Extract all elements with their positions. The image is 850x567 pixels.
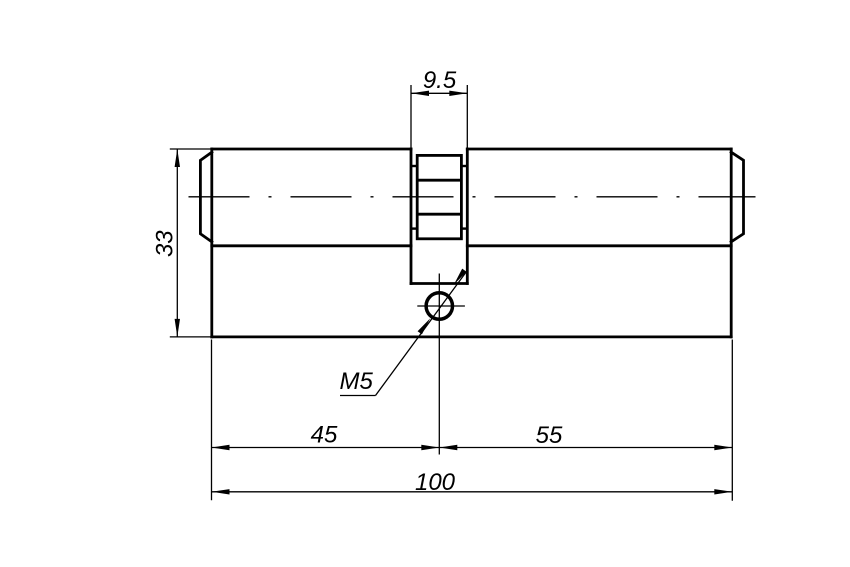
cylinder body outline bbox=[212, 149, 731, 337]
cam slot right wall bbox=[466, 149, 469, 284]
cam divider line upper bbox=[417, 179, 461, 182]
extension line below body left bbox=[211, 340, 213, 501]
left end cap with chamfers bbox=[200, 152, 211, 242]
barrel bottom edge (interrupted by cam slot) bbox=[212, 244, 731, 247]
cam divider line lower bbox=[417, 213, 461, 216]
dimension 9.5 extension line left bbox=[410, 85, 412, 149]
svg-text:45: 45 bbox=[311, 422, 338, 449]
cam side tick upper-right bbox=[461, 165, 467, 167]
cam side tick upper-left bbox=[411, 165, 417, 167]
cam side tick lower-right bbox=[461, 227, 467, 229]
dimension 100 line with arrows bbox=[212, 489, 733, 494]
dimension 33 line with arrows bbox=[175, 149, 180, 337]
svg-text:55: 55 bbox=[536, 422, 563, 449]
label M5 leader line bbox=[376, 271, 467, 395]
cam slot bottom edge bbox=[411, 282, 467, 285]
body right edge bbox=[730, 149, 733, 337]
M5 hole circle bbox=[426, 293, 452, 319]
hole vertical centerline bbox=[438, 274, 440, 455]
label M5 underline bbox=[340, 395, 376, 397]
svg-text:100: 100 bbox=[415, 469, 456, 496]
cam slot left wall bbox=[410, 149, 413, 284]
leader arrow at hole bbox=[418, 318, 431, 334]
dimension 33 extension line bottom bbox=[170, 336, 212, 338]
svg-text:33: 33 bbox=[151, 230, 178, 257]
cam block rectangle bbox=[417, 155, 461, 238]
dimension 9.5 extension line right bbox=[466, 85, 468, 149]
leader arrow at slot bottom bbox=[454, 269, 467, 285]
cam side tick lower-left bbox=[411, 227, 417, 229]
dimension 33 extension line top bbox=[170, 148, 212, 150]
dimension 9.5 line with arrows bbox=[411, 91, 467, 96]
body left edge bbox=[210, 149, 213, 337]
hole crosshair horizontal bbox=[417, 305, 465, 307]
dimension 55 line with arrows bbox=[439, 445, 732, 450]
extension line below body right bbox=[731, 340, 733, 501]
dimension 45 line with arrows bbox=[212, 445, 440, 450]
body bottom edge bbox=[212, 335, 731, 338]
horizontal axis centerline (dash-dot) bbox=[189, 196, 756, 198]
svg-text:9.5: 9.5 bbox=[423, 67, 457, 94]
svg-text:M5: M5 bbox=[340, 368, 374, 395]
right end cap with chamfers bbox=[731, 152, 743, 242]
barrel top edge (interrupted by cam slot) bbox=[212, 148, 731, 151]
